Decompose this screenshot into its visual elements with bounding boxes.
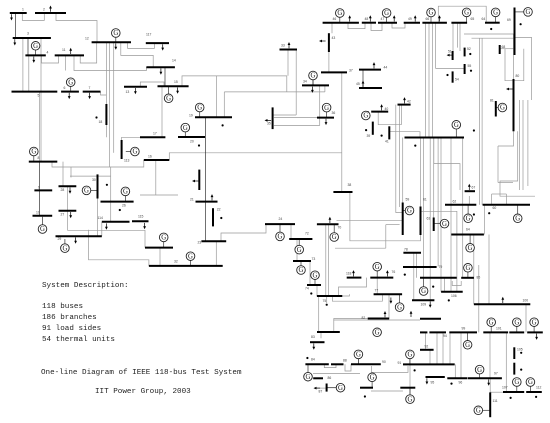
svg-text:G: G xyxy=(477,367,482,374)
generator G48 xyxy=(304,372,313,381)
svg-text:5: 5 xyxy=(38,94,40,98)
wire xyxy=(224,91,325,93)
wire xyxy=(525,304,527,332)
generator G21 xyxy=(322,103,331,112)
generator stem xyxy=(70,86,72,91)
generator G15 xyxy=(276,232,285,241)
load arrow (down) xyxy=(176,88,179,94)
svg-text:G: G xyxy=(489,319,494,326)
load dot xyxy=(220,217,222,219)
svg-text:28: 28 xyxy=(61,188,65,192)
svg-text:G: G xyxy=(384,10,389,17)
svg-text:91: 91 xyxy=(398,361,402,365)
bus 54 (vertical) xyxy=(452,71,454,82)
wire xyxy=(325,224,327,296)
wire xyxy=(316,387,327,389)
wire xyxy=(491,194,493,205)
generator stem xyxy=(469,235,471,244)
load dot xyxy=(95,116,97,118)
bus 68 (vertical) xyxy=(499,45,501,54)
wire xyxy=(22,13,44,20)
svg-text:83: 83 xyxy=(311,335,315,339)
load arrow (left) xyxy=(319,40,326,43)
bus 35 (vertical) xyxy=(272,107,274,129)
wire xyxy=(500,48,514,50)
load arrow (down) xyxy=(535,334,538,340)
generator G6 xyxy=(61,244,70,253)
wire xyxy=(335,247,386,249)
svg-text:64: 64 xyxy=(482,17,486,21)
bus 105 (vertical) xyxy=(513,347,515,359)
wire xyxy=(442,332,444,364)
wire xyxy=(97,199,99,237)
svg-text:G: G xyxy=(515,216,520,223)
load arrow (up) xyxy=(386,270,389,276)
svg-text:G: G xyxy=(397,304,402,311)
generator stem xyxy=(516,326,518,332)
svg-text:G: G xyxy=(332,234,337,241)
svg-text:59: 59 xyxy=(406,198,410,202)
load dot xyxy=(326,304,328,306)
bus 11 xyxy=(55,54,84,56)
generator stem xyxy=(307,364,309,372)
svg-text:G: G xyxy=(123,189,128,196)
wire xyxy=(420,138,422,207)
svg-text:G: G xyxy=(297,247,302,254)
wire xyxy=(273,114,297,116)
svg-text:IIT Power Group, 2003: IIT Power Group, 2003 xyxy=(95,388,191,396)
wire xyxy=(376,278,378,295)
wire xyxy=(309,261,311,285)
svg-text:G: G xyxy=(375,330,380,337)
wire xyxy=(472,37,514,39)
generator G39 xyxy=(487,318,496,327)
svg-text:97: 97 xyxy=(494,372,498,376)
svg-text:G: G xyxy=(465,342,470,349)
svg-text:G: G xyxy=(375,264,380,271)
svg-text:61: 61 xyxy=(423,198,427,202)
bus 45 xyxy=(359,87,382,89)
load dot xyxy=(310,292,312,294)
wire xyxy=(320,332,322,338)
wire xyxy=(456,235,458,292)
wire xyxy=(328,52,330,72)
wire xyxy=(67,230,145,247)
wire xyxy=(350,192,421,241)
load arrow (up) xyxy=(414,15,417,21)
generator G44 xyxy=(474,406,483,415)
wire xyxy=(274,117,317,119)
generator stem xyxy=(434,223,441,225)
svg-text:16: 16 xyxy=(148,155,152,159)
wire xyxy=(155,160,157,195)
bus 49 xyxy=(404,22,420,24)
svg-text:78: 78 xyxy=(404,248,408,252)
generator stem xyxy=(467,272,469,278)
svg-text:G: G xyxy=(442,221,447,228)
wire xyxy=(402,138,404,203)
wire xyxy=(333,319,420,321)
wire xyxy=(52,160,144,167)
svg-text:54: 54 xyxy=(455,78,459,82)
wire xyxy=(488,235,490,305)
wire xyxy=(399,105,401,207)
svg-text:36: 36 xyxy=(332,111,336,115)
bus 1 xyxy=(10,12,27,14)
wire xyxy=(514,37,532,100)
svg-text:G: G xyxy=(476,408,481,415)
svg-text:45: 45 xyxy=(356,82,360,86)
generator stem xyxy=(298,239,300,246)
svg-text:One-line Diagram of IEEE 118-b: One-line Diagram of IEEE 118-bus Test Sy… xyxy=(41,369,242,377)
bus 20 xyxy=(178,136,205,138)
bus 72 xyxy=(289,238,312,240)
bus 42 xyxy=(398,104,411,106)
wire xyxy=(324,364,336,367)
bus 17 xyxy=(140,136,165,138)
bus 59 (vertical) xyxy=(402,203,404,236)
svg-text:17: 17 xyxy=(153,132,157,136)
svg-text:60: 60 xyxy=(493,206,497,210)
wire xyxy=(287,50,289,76)
generator stem xyxy=(42,217,44,225)
generator G37 xyxy=(419,287,428,296)
svg-text:G: G xyxy=(62,245,67,252)
load arrow (down) xyxy=(114,43,117,49)
load arrow (up) xyxy=(380,104,383,110)
wire xyxy=(500,131,535,196)
svg-text:73: 73 xyxy=(312,257,316,261)
svg-text:1: 1 xyxy=(22,8,24,12)
load arrow (up) xyxy=(211,194,214,200)
bus 5 xyxy=(12,91,58,93)
svg-text:G: G xyxy=(338,385,343,392)
load arrow (up) xyxy=(438,15,441,21)
svg-text:106: 106 xyxy=(451,294,457,298)
generator G54 xyxy=(395,303,404,312)
svg-text:23: 23 xyxy=(198,241,202,245)
svg-text:33: 33 xyxy=(281,44,285,48)
svg-text:117: 117 xyxy=(146,33,152,37)
svg-text:G: G xyxy=(465,265,470,272)
wire xyxy=(522,100,524,190)
wire xyxy=(215,241,217,266)
load dot xyxy=(432,286,434,288)
bus 90 xyxy=(360,387,373,389)
wire xyxy=(66,186,68,210)
wire xyxy=(473,235,475,278)
load arrow (up) xyxy=(393,15,396,21)
bus 113 (vertical) xyxy=(121,140,123,159)
wire xyxy=(371,366,408,372)
svg-text:G: G xyxy=(188,253,193,260)
generator stem xyxy=(300,261,302,266)
svg-text:82: 82 xyxy=(362,316,366,320)
generator G16 xyxy=(295,245,304,254)
load arrow (left) xyxy=(265,119,272,122)
wire xyxy=(425,23,427,138)
generator G31 xyxy=(405,206,414,215)
load arrow (down) xyxy=(312,343,315,349)
generator stem xyxy=(479,374,481,379)
bus 111 (vertical) xyxy=(489,392,491,417)
svg-text:G: G xyxy=(197,105,202,112)
bus 99 xyxy=(449,331,477,333)
svg-text:91 load sides: 91 load sides xyxy=(42,325,101,333)
generator G30 xyxy=(498,103,507,112)
bus 19 xyxy=(195,116,232,118)
wire xyxy=(409,354,411,399)
bus 107 xyxy=(503,391,524,393)
wire xyxy=(400,105,402,125)
load dot xyxy=(119,209,121,211)
wire xyxy=(105,42,107,104)
generator G23 xyxy=(336,9,345,18)
wire xyxy=(429,350,431,365)
wire xyxy=(433,138,435,218)
svg-text:29: 29 xyxy=(58,237,62,241)
svg-text:G: G xyxy=(278,234,283,241)
svg-text:77: 77 xyxy=(375,289,379,293)
load dot xyxy=(469,53,471,55)
generator G46 xyxy=(354,350,363,359)
wire xyxy=(339,278,367,296)
svg-text:G: G xyxy=(68,79,73,86)
bus 63 (vertical) xyxy=(433,218,435,232)
wire xyxy=(435,23,437,69)
svg-text:7: 7 xyxy=(89,86,91,90)
wire xyxy=(324,85,326,92)
wire xyxy=(434,139,460,191)
generator G50 xyxy=(368,373,377,382)
bus 30 (vertical) xyxy=(97,174,99,198)
wire xyxy=(464,34,514,79)
generator stem xyxy=(529,386,531,392)
generator stem xyxy=(339,17,341,23)
generator stem xyxy=(376,328,378,332)
generator G3 xyxy=(112,29,121,38)
bus 2 xyxy=(35,12,66,14)
load arrow (left) xyxy=(192,180,199,183)
generator stem xyxy=(516,386,518,392)
generator stem xyxy=(357,354,359,364)
bus 62 xyxy=(445,204,476,206)
wire xyxy=(42,55,59,63)
generator G13 xyxy=(195,103,204,112)
wire xyxy=(357,359,359,365)
wire xyxy=(450,138,452,235)
bus 48 xyxy=(362,22,376,24)
bus 13 xyxy=(124,86,147,88)
generator G11 xyxy=(186,252,195,261)
svg-text:47: 47 xyxy=(381,17,385,21)
svg-text:100: 100 xyxy=(523,299,529,303)
svg-text:G: G xyxy=(363,113,368,120)
load arrow (down) xyxy=(143,223,146,229)
generator stem xyxy=(115,37,117,42)
wire xyxy=(101,222,103,236)
generator G18 xyxy=(311,271,320,280)
generator stem xyxy=(495,17,497,23)
wire xyxy=(396,105,403,213)
svg-text:G: G xyxy=(356,352,361,359)
svg-text:43: 43 xyxy=(332,36,336,40)
load arrow (down) xyxy=(160,68,163,74)
load dot xyxy=(470,70,472,72)
svg-text:39: 39 xyxy=(367,134,371,138)
generator G1 xyxy=(31,42,40,51)
svg-text:118 buses: 118 buses xyxy=(42,303,83,311)
bus 40 xyxy=(371,111,388,113)
bus 10 xyxy=(33,215,53,217)
wire xyxy=(38,162,40,216)
bus 95 xyxy=(426,376,445,378)
load dot xyxy=(450,383,452,385)
wire xyxy=(70,167,72,178)
svg-text:21: 21 xyxy=(190,198,194,202)
wire xyxy=(492,193,507,195)
svg-text:G: G xyxy=(132,149,137,156)
bus 26 xyxy=(101,201,134,203)
wire xyxy=(440,138,442,292)
wire xyxy=(437,138,439,267)
wire xyxy=(452,281,461,286)
svg-text:10: 10 xyxy=(36,211,40,215)
svg-text:G: G xyxy=(306,374,311,381)
load arrow (down) xyxy=(134,88,137,94)
bus 96 xyxy=(447,377,467,379)
generator G42 xyxy=(513,378,522,387)
wire xyxy=(101,92,107,95)
wire xyxy=(348,23,365,29)
svg-text:75: 75 xyxy=(323,299,327,303)
wire xyxy=(326,297,328,303)
load arrow (up) xyxy=(352,270,355,276)
generator G51 xyxy=(406,395,415,404)
wire xyxy=(66,211,68,231)
load dot xyxy=(473,129,475,131)
bus 55 (vertical) xyxy=(464,64,466,74)
bus 97 xyxy=(468,377,502,379)
generator G27 xyxy=(491,8,500,17)
load arrow (down) xyxy=(69,188,72,194)
svg-text:52: 52 xyxy=(467,47,471,51)
svg-text:G: G xyxy=(311,73,316,80)
generator G2 xyxy=(66,78,75,87)
svg-text:26: 26 xyxy=(122,204,126,208)
wire xyxy=(421,211,457,234)
bus 73 xyxy=(293,260,311,262)
svg-text:90: 90 xyxy=(382,360,386,364)
wire xyxy=(392,23,405,28)
generator G33 xyxy=(464,214,473,223)
wire xyxy=(423,138,425,278)
svg-text:49: 49 xyxy=(408,17,412,21)
bus 61 (vertical) xyxy=(420,207,422,236)
generator stem xyxy=(455,129,457,138)
svg-text:G: G xyxy=(500,105,505,112)
bus 78 xyxy=(403,252,421,254)
bus 14 xyxy=(146,66,175,68)
bus 16 xyxy=(144,159,170,161)
wire xyxy=(378,112,401,125)
svg-text:32: 32 xyxy=(174,260,178,264)
svg-text:G: G xyxy=(468,245,473,252)
bus 52 (vertical) xyxy=(464,48,466,57)
load dot xyxy=(365,129,367,131)
load dot xyxy=(520,23,522,25)
wire xyxy=(113,42,115,153)
generator stem xyxy=(403,210,406,212)
svg-text:9: 9 xyxy=(38,186,40,190)
wire xyxy=(371,23,382,31)
load arrow (up) xyxy=(362,81,365,87)
load arrow (up) xyxy=(288,42,291,48)
bus 4 xyxy=(25,54,45,56)
svg-text:48: 48 xyxy=(365,17,369,21)
generator stem xyxy=(430,17,432,23)
bus 37 xyxy=(321,71,347,73)
bus bus xyxy=(405,137,465,139)
svg-text:86: 86 xyxy=(328,376,332,380)
wire xyxy=(459,23,461,51)
wire xyxy=(460,332,462,378)
bus bus xyxy=(403,363,455,365)
generator G53 xyxy=(373,262,382,271)
svg-text:68: 68 xyxy=(502,45,506,49)
wire xyxy=(15,13,17,38)
bus 28 xyxy=(59,185,77,187)
wire xyxy=(450,234,452,236)
load dot xyxy=(446,74,448,76)
generator stem xyxy=(533,326,535,332)
svg-text:G: G xyxy=(313,272,318,279)
svg-text:101: 101 xyxy=(496,327,502,331)
load dot xyxy=(510,397,512,399)
svg-text:G: G xyxy=(466,216,471,223)
generator G28 xyxy=(524,8,533,17)
bus 118 xyxy=(347,277,362,279)
wire xyxy=(295,50,297,116)
bus bus (vertical) xyxy=(198,170,200,190)
load arrow (up) xyxy=(69,48,72,54)
svg-text:95: 95 xyxy=(431,381,435,385)
generator stem xyxy=(126,151,131,153)
load arrow (down) xyxy=(426,378,429,384)
wire xyxy=(27,38,29,55)
load dot xyxy=(414,369,416,371)
svg-text:40: 40 xyxy=(385,107,389,111)
bus 83 xyxy=(310,341,325,343)
bus 44 xyxy=(359,69,381,71)
bus 18 (vertical) xyxy=(105,104,107,125)
load arrow (left) xyxy=(506,88,513,91)
wire xyxy=(105,125,107,137)
svg-text:42: 42 xyxy=(407,100,411,104)
wire xyxy=(371,390,403,392)
generator stem xyxy=(327,387,337,389)
bus 7 xyxy=(83,91,101,93)
generator stem xyxy=(279,224,281,232)
svg-text:96: 96 xyxy=(459,381,463,385)
load dot xyxy=(106,184,108,186)
bus 87 (vertical) xyxy=(326,384,328,392)
load arrow (up) xyxy=(329,217,332,223)
wire xyxy=(318,296,320,332)
generator stem xyxy=(190,260,192,266)
svg-text:55: 55 xyxy=(468,64,472,68)
load arrow (down) xyxy=(390,298,393,304)
